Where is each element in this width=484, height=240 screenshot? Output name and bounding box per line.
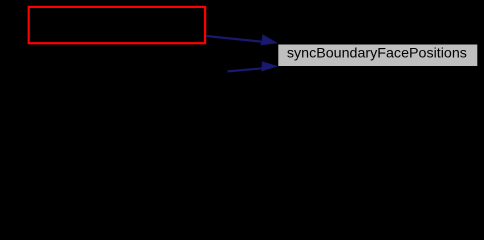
svg-text:syncBoundaryFacePositions: syncBoundaryFacePositions [287,45,467,61]
call graph canvas [0,0,484,103]
edge: arrow 1 (red box to grey node) [206,35,276,45]
edge: arrow 2 (hidden node to grey node) [228,62,277,72]
node: syncBoundaryFacePositions (grey box) [278,45,477,67]
node: caller (red highlighted box) [29,7,205,43]
